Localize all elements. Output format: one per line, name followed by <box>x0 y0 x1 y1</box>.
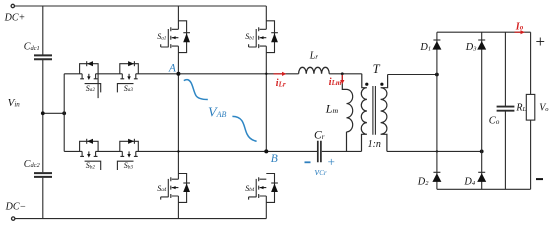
diode D3 <box>477 40 486 50</box>
svg-text:Sa2: Sa2 <box>86 84 96 93</box>
svg-text:A: A <box>168 63 177 75</box>
wire node B line <box>64 150 317 152</box>
capacitor Cdc1 <box>34 55 52 59</box>
svg-text:Lm: Lm <box>325 102 339 116</box>
svg-text:VAB: VAB <box>208 106 226 121</box>
wire input capacitor string <box>42 6 44 219</box>
svg-text:Lr: Lr <box>309 51 319 62</box>
svg-text:+: + <box>327 154 336 169</box>
current arrow iLm <box>340 75 344 84</box>
wire output top rail <box>437 31 531 33</box>
svg-text:Sb3: Sb3 <box>124 161 134 170</box>
current arrow iLr <box>274 72 287 76</box>
svg-text:Sa1: Sa1 <box>157 32 167 41</box>
svg-text:Co: Co <box>489 116 500 127</box>
annotation curve VAB lower <box>232 116 256 141</box>
wire output right leg <box>530 32 532 189</box>
svg-text:D4: D4 <box>463 177 475 188</box>
wire rectifier leg D1 D2 <box>436 32 438 189</box>
diode D4 <box>477 172 486 182</box>
annotation curve VAB upper <box>184 80 208 100</box>
capacitor Co <box>497 32 515 189</box>
label output minus <box>536 178 543 180</box>
svg-text:Sa4: Sa4 <box>157 184 167 193</box>
wire leg a mid (A to Sa4) <box>177 74 179 179</box>
wire node A line <box>64 73 362 75</box>
resistor RL <box>526 94 535 120</box>
junction Lm tap <box>341 72 344 75</box>
svg-text:D2: D2 <box>417 177 429 188</box>
capacitor Cdc2 <box>34 173 52 177</box>
svg-text:D3: D3 <box>465 42 477 53</box>
wire DC+ top rail <box>15 5 267 7</box>
svg-text:RL: RL <box>515 103 526 114</box>
svg-text:DC−: DC− <box>5 202 27 213</box>
transistor Sa4 <box>161 174 190 219</box>
transistor Sa2 <box>80 61 101 98</box>
node B <box>264 149 268 153</box>
svg-text:1:n: 1:n <box>368 139 381 150</box>
svg-text:iLr: iLr <box>276 78 286 89</box>
inductor Lm <box>342 74 352 152</box>
junction crossing D2 leg <box>436 150 438 152</box>
capacitor Cr <box>318 141 321 163</box>
svg-text:Io: Io <box>515 21 524 32</box>
label vCr polarity minus <box>305 161 311 163</box>
junction crossing leg b at A line <box>265 73 267 75</box>
junction midpoint right <box>62 111 66 115</box>
wire rectifier leg D3 D4 <box>481 32 483 189</box>
svg-text:D1: D1 <box>419 42 431 53</box>
svg-text:B: B <box>271 153 278 165</box>
svg-text:Cdc2: Cdc2 <box>24 159 41 170</box>
wire leg b mid (Sb1 to B) <box>265 74 267 152</box>
svg-text:Sb1: Sb1 <box>245 32 255 41</box>
junction crossing leg a at B line <box>177 150 179 152</box>
junction secondary bottom at D4 leg <box>480 150 484 154</box>
wire secondary bottom <box>387 150 482 152</box>
svg-text:+: + <box>534 32 545 51</box>
svg-text:T: T <box>373 62 381 76</box>
wire left rail <box>63 74 65 152</box>
transistor Sa1 <box>161 6 190 74</box>
terminal DC+ <box>11 4 14 7</box>
transformer T <box>361 74 387 152</box>
svg-text:vCr: vCr <box>315 167 327 178</box>
diode D1 <box>432 40 441 50</box>
svg-text:Vo: Vo <box>539 103 549 114</box>
transistor Sb1 <box>249 6 278 74</box>
transistor Sb2 <box>80 139 101 170</box>
svg-text:Sb2: Sb2 <box>86 161 96 170</box>
wire output bottom rail <box>437 188 531 190</box>
svg-text:Sb4: Sb4 <box>245 184 255 193</box>
wire DC- bottom rail <box>15 218 266 220</box>
transistor Sb3 <box>117 139 138 170</box>
wire secondary top <box>388 74 437 76</box>
svg-text:Cdc1: Cdc1 <box>24 42 40 53</box>
diode D2 <box>432 172 441 182</box>
transistor Sb4 <box>249 174 278 219</box>
wire capacitor midpoint link <box>43 112 64 114</box>
svg-text:Cr: Cr <box>314 130 325 142</box>
junction secondary top at D1 leg <box>435 73 439 77</box>
node A <box>176 72 180 76</box>
svg-text:Sa3: Sa3 <box>124 84 134 93</box>
svg-text:iLm: iLm <box>329 77 342 88</box>
inductor Lr <box>299 67 330 74</box>
svg-text:DC+: DC+ <box>4 13 26 24</box>
junction midpoint left <box>41 111 45 115</box>
current arrow Io <box>515 30 525 34</box>
transistor Sa3 <box>117 61 138 92</box>
terminal DC- <box>12 217 15 220</box>
svg-text:Vin: Vin <box>8 97 21 109</box>
wire Cr to transformer primary bottom <box>322 150 362 152</box>
